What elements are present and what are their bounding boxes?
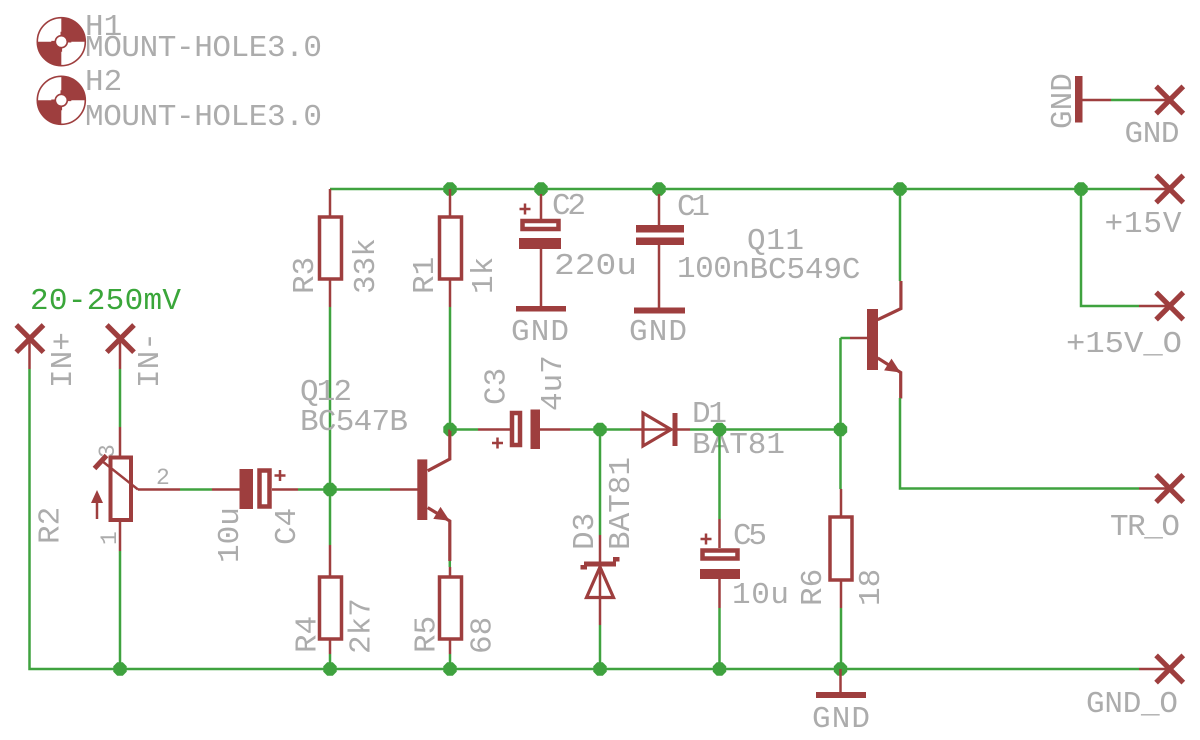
pin X +15V_O <box>1156 292 1183 319</box>
svg-text:2k7: 2k7 <box>345 598 380 654</box>
capacitor C3 (polarized) <box>492 410 540 450</box>
pin stub R3 top <box>329 189 332 217</box>
svg-text:GND: GND <box>812 702 870 737</box>
svg-text:BC547B: BC547B <box>300 405 408 440</box>
svg-text:GND_O: GND_O <box>1086 687 1178 722</box>
pin stub +15V_O <box>1139 305 1170 308</box>
junction R1/top rail <box>443 182 456 195</box>
svg-text:33k: 33k <box>349 238 384 294</box>
mount hole H2 <box>37 76 85 124</box>
svg-text:C3: C3 <box>480 368 515 405</box>
svg-text:R5: R5 <box>410 616 445 653</box>
junction C5 node <box>713 423 726 436</box>
potentiometer wiper pin 2 stub <box>138 488 180 491</box>
svg-text:R4: R4 <box>291 616 326 653</box>
resistor R3 <box>320 217 342 279</box>
wire Q12 emitter to R5 <box>449 561 452 567</box>
svg-text:BAT81: BAT81 <box>692 428 785 463</box>
svg-text:C5: C5 <box>733 519 767 554</box>
pin stub R5 top <box>449 567 452 577</box>
pin stub C5 top <box>718 519 721 548</box>
svg-text:MOUNT-HOLE3.0: MOUNT-HOLE3.0 <box>85 31 322 66</box>
svg-text:GND: GND <box>1125 117 1180 152</box>
pin X GND_O <box>1156 655 1183 682</box>
ground symbol GND (bottom) <box>816 692 866 698</box>
junction C5/bottom rail <box>713 662 726 675</box>
potentiometer R7 body <box>91 456 138 521</box>
junction node at R3/R4/base <box>323 483 336 496</box>
svg-text:H2: H2 <box>85 65 122 100</box>
wire R2 net (left vertical + bottom rail) <box>30 369 1140 669</box>
wire IN- to potentiometer <box>119 369 122 427</box>
wire C5 node down <box>718 430 721 520</box>
wire mid node: collector to C3 <box>450 428 478 431</box>
wire GND net (top right) <box>1111 99 1140 102</box>
pin stub R6 top <box>840 489 843 517</box>
wire +15V top rail <box>330 188 1140 191</box>
potentiometer pin 1 stub <box>119 520 122 551</box>
junction pot/bottom rail <box>113 662 126 675</box>
wire C4 to node <box>298 488 330 491</box>
svg-text:68: 68 <box>466 617 501 654</box>
wire +15V_O branch <box>1081 195 1139 306</box>
svg-text:GND: GND <box>511 315 569 350</box>
svg-text:BAT81: BAT81 <box>604 457 639 550</box>
svg-text:C4: C4 <box>270 508 305 545</box>
transistor Q11 <box>867 281 901 399</box>
svg-text:C1: C1 <box>677 190 710 225</box>
pin stub R3 bottom <box>329 279 332 307</box>
mount hole H1 <box>37 18 85 66</box>
pin stub R1 bottom <box>449 279 452 307</box>
svg-text:GND: GND <box>1046 73 1081 129</box>
wire node to Q12 base <box>330 488 390 491</box>
pin stub IN- <box>119 339 122 369</box>
junction R5/bottom rail <box>443 662 456 675</box>
svg-text:R3: R3 <box>288 257 323 294</box>
potentiometer R7 pin 3 stub <box>119 427 122 457</box>
svg-text:IN-: IN- <box>133 332 168 388</box>
pin stub C3 right <box>540 428 570 431</box>
wire C3 to D3 node <box>570 428 630 431</box>
diode D1 (BAT81) <box>630 413 690 446</box>
diode D3 (BAT81) <box>581 557 620 598</box>
svg-text:R2: R2 <box>34 507 69 544</box>
junction R4/bottom rail <box>323 662 336 675</box>
pin stub IN+ <box>28 339 31 369</box>
pin stub GND pad <box>1140 99 1170 102</box>
wire R1 to collector node <box>449 307 452 430</box>
svg-text:R6: R6 <box>796 569 831 606</box>
svg-text:18: 18 <box>854 569 889 606</box>
pin stub D3 bottom <box>599 598 602 625</box>
capacitor C4 (polarized) <box>240 469 286 509</box>
transistor Q12 <box>390 430 450 562</box>
svg-text:R1: R1 <box>408 257 443 294</box>
svg-text:10u: 10u <box>732 578 789 613</box>
pin stub R5 bottom <box>449 639 452 654</box>
svg-text:IN+: IN+ <box>46 332 81 388</box>
pin stub GND_O <box>1139 668 1170 671</box>
svg-text:2: 2 <box>156 465 170 491</box>
svg-text:1k: 1k <box>467 257 502 294</box>
resistor R6 <box>830 517 852 580</box>
svg-text:220u: 220u <box>554 249 637 284</box>
wire D3 node down <box>599 430 602 536</box>
svg-text:4u7: 4u7 <box>536 355 571 411</box>
ground symbol GND (top right) <box>1075 76 1111 123</box>
svg-text:10u: 10u <box>213 507 248 563</box>
pin stub D3 top <box>599 535 602 562</box>
pin stub C2 bottom <box>540 249 543 306</box>
pin stub ground (bottom) <box>839 669 842 692</box>
wire D3 to bottom rail <box>599 625 602 669</box>
ground symbol GND (C2) <box>516 306 566 312</box>
capacitor C5 (polarized) <box>700 534 740 580</box>
pin stub C4 right <box>272 488 298 491</box>
pin stub C1 top <box>658 194 661 225</box>
svg-text:+15V: +15V <box>1105 207 1182 242</box>
wire R3 to node <box>329 307 332 545</box>
junction R6/base node <box>834 423 847 436</box>
junction C1/top rail <box>652 182 665 195</box>
svg-text:MOUNT-HOLE3.0: MOUNT-HOLE3.0 <box>85 100 322 135</box>
svg-text:1: 1 <box>97 531 123 545</box>
svg-text:+15V_O: +15V_O <box>1066 327 1182 362</box>
wire top rail to Q11 collector <box>899 189 902 281</box>
svg-text:GND: GND <box>629 315 687 350</box>
pin stub C2 top <box>540 194 543 219</box>
pin X +15V <box>1156 175 1183 202</box>
svg-text:100n: 100n <box>677 252 750 287</box>
capacitor C1 <box>636 225 684 245</box>
pin stub Q11 base <box>850 337 867 340</box>
capacitor C2 (polarized) <box>519 204 561 250</box>
wire D1 to C5 node <box>690 428 841 431</box>
resistor R4 <box>320 577 342 639</box>
pin stub R4 top <box>329 545 332 577</box>
junction D3 node <box>593 423 606 436</box>
junction collector node <box>443 423 456 436</box>
junction D3/bottom rail <box>593 662 606 675</box>
pin stub C3 left <box>478 428 510 431</box>
wire R6 to bottom rail <box>840 608 843 669</box>
svg-text:TR_O: TR_O <box>1110 510 1180 545</box>
pin X IN- <box>107 325 134 352</box>
pin stub C4 left <box>212 488 240 491</box>
wire C5 to bottom rail <box>718 608 721 669</box>
pin stub +15V <box>1140 188 1170 191</box>
pin stub TR_O <box>1139 487 1170 490</box>
ground symbol GND (C1) <box>634 308 685 314</box>
wire Q11 base horizontal (green) <box>841 337 851 340</box>
wire Q11 base node vertical <box>839 338 842 489</box>
junction +15V_O branch/top rail <box>1074 182 1087 195</box>
resistor R1 <box>440 217 462 279</box>
junction C2/top rail <box>534 182 547 195</box>
svg-text:C2: C2 <box>552 189 586 224</box>
pin stub C1 bottom <box>658 245 661 308</box>
pin X IN+ <box>16 325 43 352</box>
pin X TR_O <box>1156 475 1183 502</box>
junction R6/bottom rail <box>834 662 847 675</box>
resistor R5 <box>440 577 462 639</box>
svg-text:20-250mV: 20-250mV <box>30 284 181 319</box>
wire R4 to bottom rail <box>329 654 332 669</box>
wire wiper to C4 <box>180 488 212 491</box>
pin X GND (top right) <box>1156 86 1183 113</box>
wire pot pin1 to bottom rail <box>119 551 122 669</box>
junction Q11 collector/top rail <box>893 182 906 195</box>
svg-text:D3: D3 <box>568 513 603 550</box>
pin stub R6 bottom <box>840 580 843 608</box>
pin stub C5 bottom <box>718 579 721 608</box>
svg-text:BC549C: BC549C <box>750 253 861 288</box>
wire R5 to bottom rail <box>449 654 452 669</box>
pin stub R1 top <box>449 189 452 217</box>
wire Q11 emitter to TR_O <box>900 398 1139 489</box>
pin stub R4 bottom <box>329 639 332 654</box>
